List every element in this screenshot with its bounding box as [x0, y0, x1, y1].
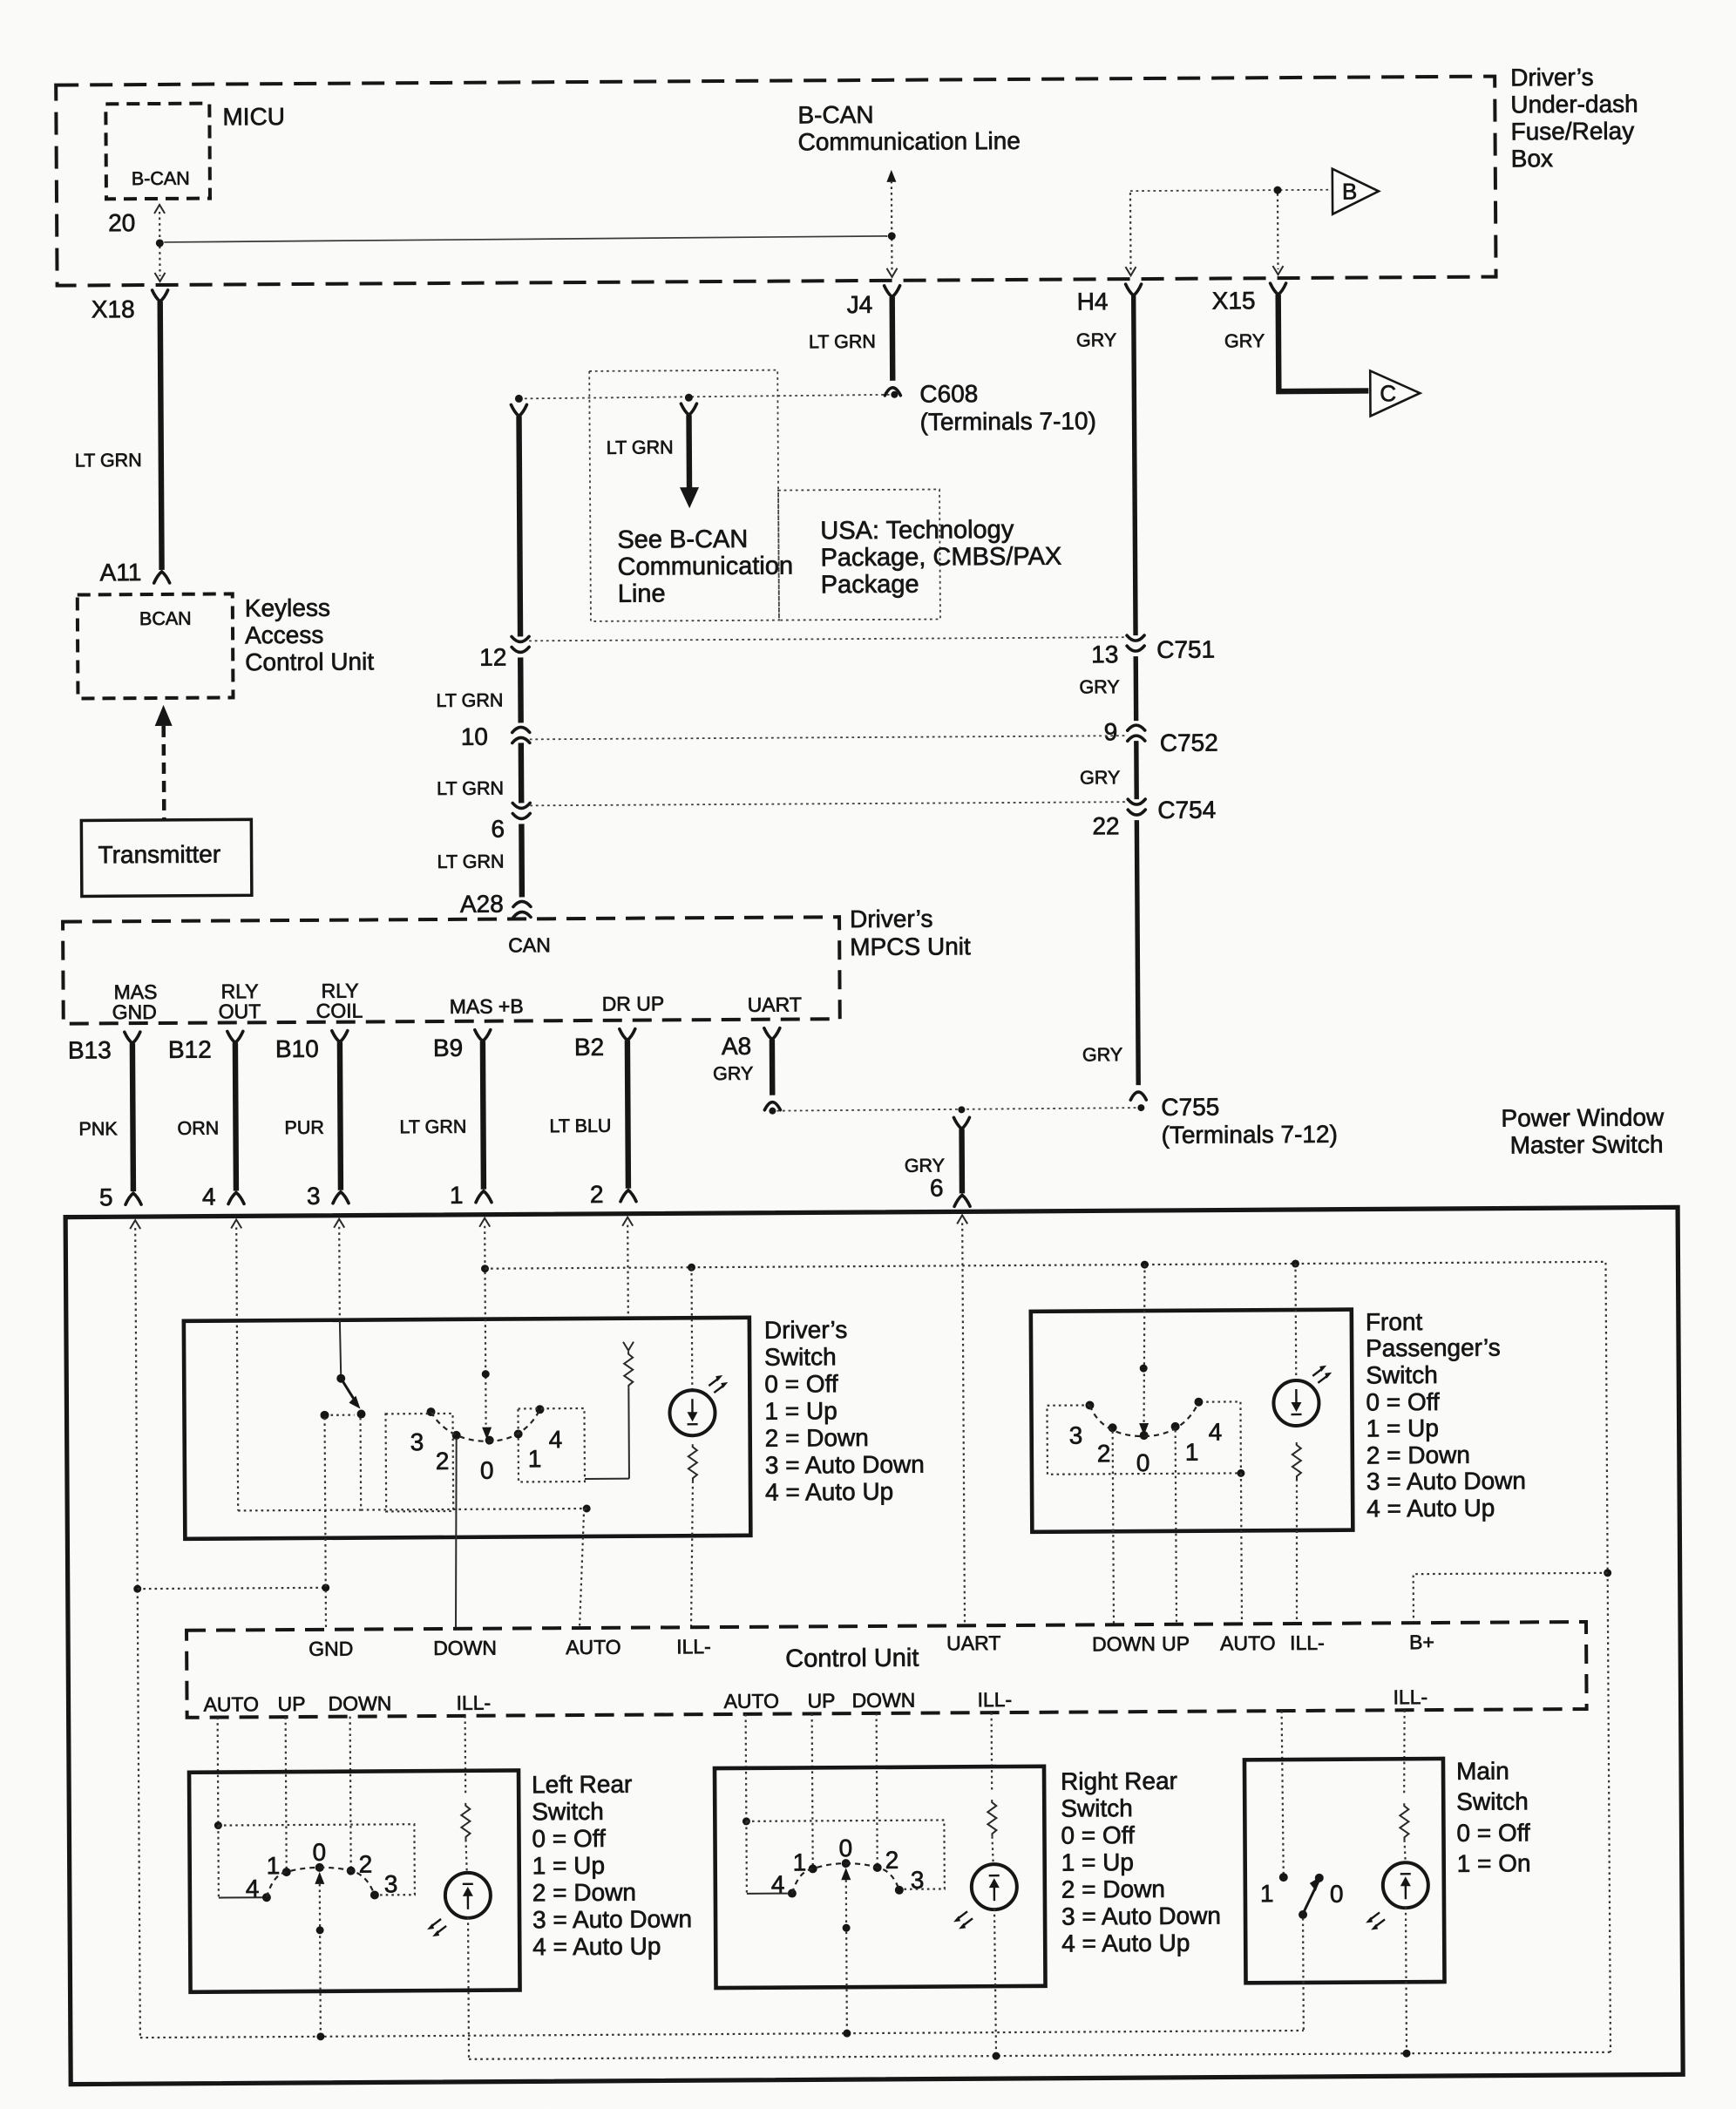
- svg-text:1 = Up: 1 = Up: [1061, 1848, 1134, 1876]
- svg-text:4 = Auto Up: 4 = Auto Up: [765, 1478, 893, 1506]
- FP rotary contact 2: [1097, 1423, 1117, 1467]
- junction pin5/GND link: [133, 1585, 141, 1593]
- svg-text:A28: A28: [460, 891, 504, 918]
- connector A8: [713, 1028, 780, 1084]
- svg-text:0: 0: [1330, 1881, 1344, 1908]
- svg-text:Access: Access: [245, 621, 323, 649]
- svg-text:3: 3: [307, 1183, 321, 1210]
- relay contact (to GND output): [320, 1411, 354, 1420]
- svg-text:C754: C754: [1157, 797, 1216, 824]
- terminal labels control unit bottom row: [203, 1692, 259, 1715]
- connector arrow C: [1370, 370, 1420, 416]
- wire: PUR B10 to pin 3: [284, 1042, 341, 1190]
- svg-text:Driver’s: Driver’s: [1510, 64, 1594, 92]
- svg-text:1: 1: [528, 1445, 542, 1472]
- svg-text:LT GRN: LT GRN: [399, 1116, 466, 1137]
- svg-text:CAN: CAN: [508, 933, 551, 956]
- svg-text:B10: B10: [275, 1035, 319, 1062]
- svg-text:4 = Auto Up: 4 = Auto Up: [1061, 1929, 1190, 1957]
- junction node C608: [891, 379, 1096, 435]
- wire: GRY 9 to 22: [1080, 741, 1136, 799]
- RR rotary contact 2: [873, 1847, 899, 1874]
- wire: contact 2 DOWN output: [455, 1438, 458, 1629]
- wire: main switch contact drop: [1282, 1711, 1284, 1875]
- wire: LT GRN down to connector 12: [435, 416, 521, 711]
- svg-text:Communication: Communication: [617, 553, 793, 581]
- svg-text:Transmitter: Transmitter: [98, 841, 220, 869]
- LR rotary contact 4: [246, 1875, 271, 1902]
- resistor main ILL-: [1400, 1803, 1408, 1861]
- svg-text:1: 1: [267, 1852, 281, 1879]
- svg-text:Switch: Switch: [1061, 1794, 1133, 1822]
- svg-text:ILL-: ILL-: [1290, 1631, 1325, 1654]
- svg-text:C: C: [1380, 380, 1396, 406]
- wire: GND link to control unit: [138, 1588, 326, 1589]
- svg-text:Switch: Switch: [1366, 1361, 1438, 1389]
- svg-text:2 = Down: 2 = Down: [532, 1879, 636, 1907]
- svg-text:B-CAN: B-CAN: [132, 168, 190, 189]
- svg-text:2: 2: [1097, 1440, 1111, 1467]
- svg-text:ORN: ORN: [177, 1118, 219, 1139]
- svg-text:B-CAN: B-CAN: [797, 101, 873, 129]
- connector H4 (female): [1077, 284, 1142, 315]
- rotary contact 0: [480, 1436, 494, 1484]
- wire: LT GRN from X18 to A11: [74, 302, 162, 571]
- wire: GRY H4 down to C751: [1076, 295, 1136, 635]
- Power Window Master Switch enclosure: [65, 1207, 1683, 2084]
- RR rotary contact 4: [771, 1871, 797, 1898]
- svg-text:LT GRN: LT GRN: [75, 450, 142, 471]
- svg-text:LT GRN: LT GRN: [436, 690, 503, 711]
- entry arrows at master switch top: [130, 1215, 967, 1229]
- svg-text:2: 2: [590, 1181, 604, 1208]
- svg-text:C751: C751: [1156, 636, 1215, 663]
- note box: See B-CAN Communication Line: [589, 370, 793, 621]
- wire: wiper common bus: [140, 2031, 1304, 2038]
- svg-text:Box: Box: [1511, 145, 1553, 172]
- junction node X15 branch: [1273, 186, 1281, 194]
- svg-text:4: 4: [1209, 1419, 1223, 1446]
- svg-text:Under-dash: Under-dash: [1510, 91, 1638, 119]
- FP rotary dashed arc: [1089, 1402, 1198, 1437]
- wire: pin6 UART run to control unit: [962, 1223, 965, 1625]
- LR wiper arrow and output: [315, 1872, 325, 2037]
- svg-text:GRY: GRY: [1080, 767, 1120, 788]
- svg-text:OUT: OUT: [219, 1000, 261, 1022]
- svg-text:ILL-: ILL-: [456, 1692, 491, 1714]
- svg-text:GRY: GRY: [1082, 1044, 1122, 1065]
- wire: dotted link 12 to 13 (C751): [529, 637, 1125, 641]
- svg-text:2 = Down: 2 = Down: [765, 1424, 869, 1452]
- svg-text:C752: C752: [1160, 729, 1218, 756]
- LR rotary contact 3: [370, 1870, 398, 1899]
- Front Passenger's Switch box: [1031, 1310, 1353, 1532]
- svg-text:UP: UP: [1162, 1632, 1190, 1655]
- wire: FP AUTO output: [1241, 1473, 1242, 1624]
- rotary dashed arc: [431, 1409, 539, 1441]
- MICU B-CAN internal unit (small dashed box): [105, 104, 210, 200]
- connector A28: [460, 890, 531, 917]
- wire: internal B-CAN bus from pin 20 to J4: [164, 236, 887, 242]
- connector B10: [275, 1031, 348, 1063]
- label: Driver's Switch legend: [764, 1316, 925, 1506]
- RR rotary dashed arc: [792, 1863, 899, 1894]
- svg-text:1 = Up: 1 = Up: [1366, 1414, 1439, 1442]
- label: Right Rear Switch legend: [1061, 1767, 1221, 1957]
- LED FP illumination: [1272, 1264, 1332, 1426]
- junction node at pin 20: [156, 239, 164, 247]
- svg-text:22: 22: [1092, 812, 1119, 839]
- wire: GRY 13 to 9: [1079, 656, 1136, 721]
- wire: right rear UP drop: [812, 1713, 813, 1865]
- wire: contact 4 dotted loop to resistor: [585, 1478, 629, 1480]
- LR rotary dashed arc: [267, 1867, 375, 1897]
- connector J4 (female): [847, 286, 900, 318]
- connector B12: [168, 1031, 243, 1063]
- LR rotary contact 0: [312, 1839, 326, 1872]
- svg-text:2: 2: [359, 1850, 373, 1877]
- svg-text:AUTO: AUTO: [1220, 1631, 1276, 1654]
- wire: pin1 MAS+B run: [484, 1226, 486, 1319]
- wire: pin2 DR UP run: [627, 1225, 629, 1319]
- connector pin 4 (male): [202, 1183, 244, 1210]
- connector A11 (male): [100, 559, 170, 586]
- svg-text:C608: C608: [919, 380, 978, 407]
- junction node C755 right: [1137, 1093, 1338, 1149]
- Transmitter box: [81, 819, 252, 896]
- wire: FP dotted loop rect: [1047, 1401, 1240, 1474]
- svg-text:Switch: Switch: [1456, 1787, 1529, 1815]
- svg-text:0 = Off: 0 = Off: [532, 1825, 606, 1853]
- LR rotary contact 1: [267, 1852, 291, 1879]
- wire: dotted frame around contacts 3-2: [386, 1414, 454, 1511]
- wire: B+ link to control unit: [1414, 1573, 1608, 1623]
- svg-text:0: 0: [1136, 1449, 1150, 1476]
- resistor (DR UP feedback): [623, 1342, 634, 1479]
- svg-text:0: 0: [838, 1834, 852, 1861]
- wire: dotted link 10 to 9 (C752): [530, 736, 1126, 739]
- svg-text:H4: H4: [1077, 288, 1109, 315]
- svg-text:Left Rear: Left Rear: [532, 1771, 632, 1799]
- connector pin 3 (male): [307, 1183, 349, 1210]
- svg-text:Communication Line: Communication Line: [798, 127, 1021, 156]
- connector B9: [433, 1030, 491, 1061]
- wire: left rear DOWN drop: [350, 1717, 351, 1868]
- svg-text:6: 6: [930, 1174, 944, 1201]
- label: B-CAN Communication Line: [797, 100, 1021, 156]
- junction LR wiper on bus: [316, 2032, 324, 2040]
- svg-text:LT GRN: LT GRN: [809, 331, 876, 352]
- svg-text:AUTO: AUTO: [566, 1636, 621, 1658]
- label: Front Passenger's Switch legend: [1366, 1307, 1526, 1522]
- rotary contact 4: [535, 1405, 562, 1453]
- svg-text:1 = Up: 1 = Up: [764, 1397, 837, 1425]
- wire: MAS+B into rotary wiper: [481, 1319, 492, 1440]
- svg-text:Switch: Switch: [764, 1343, 837, 1371]
- Driver's Under-dash Fuse/Relay Box (dashed enclosure): [56, 77, 1495, 286]
- FP rotary contact 4: [1194, 1398, 1222, 1446]
- svg-text:LT GRN: LT GRN: [437, 778, 504, 799]
- Right Rear Switch box: [715, 1767, 1046, 1988]
- wire: left rear AUTO drop: [217, 1718, 220, 1826]
- svg-text:Package, CMBS/PAX: Package, CMBS/PAX: [820, 543, 1061, 573]
- connector chevron A8 bottom: [764, 1102, 780, 1110]
- svg-text:12: 12: [479, 644, 506, 671]
- junction node UART tap: [958, 1106, 965, 1113]
- Keyless Access Control Unit (dashed box with BCAN): [78, 593, 234, 698]
- wire: pin4 run into driver's switch: [236, 1227, 238, 1510]
- svg-text:A11: A11: [100, 559, 142, 586]
- svg-text:DR UP: DR UP: [602, 992, 665, 1014]
- connector stub (female) on middle branch: [681, 403, 696, 415]
- wire: PNK B13 to pin 5: [78, 1043, 133, 1191]
- svg-text:COIL: COIL: [316, 1000, 363, 1022]
- label: Main Switch legend: [1456, 1757, 1531, 1877]
- wire: LT GRN 10 to 6: [437, 743, 521, 804]
- svg-text:A8: A8: [722, 1033, 751, 1060]
- wire: GND output from relay contact: [325, 1418, 326, 1630]
- rotary contact 1: [514, 1429, 542, 1472]
- svg-text:B13: B13: [68, 1036, 112, 1063]
- svg-text:0: 0: [312, 1839, 326, 1866]
- wire: transmitter RF dashed arrow: [155, 705, 173, 820]
- wire: LT GRN B9 to pin 1: [399, 1041, 484, 1190]
- wire: dotted C755 link line: [776, 1108, 1136, 1111]
- svg-text:BCAN: BCAN: [139, 608, 192, 629]
- svg-text:1: 1: [793, 1848, 807, 1875]
- wire: relay contact to pin4 dotted L: [238, 1417, 362, 1511]
- connector X18 (female): [92, 290, 168, 323]
- wire: contact 1 dotted loop: [518, 1408, 585, 1482]
- wire: dotted link 6 to 22 (C754): [530, 802, 1126, 805]
- junction node J4/B-CAN bus: [888, 232, 896, 240]
- svg-text:0 = Off: 0 = Off: [1061, 1821, 1135, 1849]
- svg-text:GRY: GRY: [1079, 676, 1119, 697]
- svg-text:GRY: GRY: [905, 1155, 945, 1176]
- svg-text:3: 3: [911, 1867, 925, 1894]
- wire: MICU pin 20 vertical (internal dotted): [154, 205, 166, 281]
- note box: USA Technology Package: [778, 489, 1062, 620]
- wire: relay coil lead inside: [340, 1320, 341, 1377]
- svg-text:Front: Front: [1366, 1308, 1423, 1335]
- wire: right rear dotted loop: [746, 1820, 945, 1893]
- junction B+ tap right side: [1604, 1569, 1611, 1577]
- wire: ILL- common bus: [469, 2052, 1611, 2059]
- svg-text:ILL-: ILL-: [977, 1688, 1012, 1711]
- wire: LT GRN 12 to 10: [518, 657, 524, 722]
- svg-text:Passenger’s: Passenger’s: [1366, 1334, 1501, 1362]
- wire: LT BLU B2 to pin 2: [549, 1041, 628, 1190]
- svg-text:4 = Auto Up: 4 = Auto Up: [1366, 1495, 1495, 1522]
- svg-text:GRY: GRY: [1076, 329, 1116, 350]
- junction ILL- driver's tap: [688, 1264, 695, 1272]
- svg-text:ILL-: ILL-: [1393, 1685, 1427, 1708]
- connector pin 6 (male): [954, 1195, 970, 1206]
- svg-text:3 = Auto Down: 3 = Auto Down: [765, 1451, 925, 1479]
- svg-text:B12: B12: [168, 1036, 212, 1063]
- svg-text:DOWN: DOWN: [433, 1637, 497, 1659]
- LED driver's illumination: [668, 1267, 728, 1435]
- svg-text:4: 4: [202, 1183, 216, 1210]
- svg-text:Power Window: Power Window: [1501, 1103, 1665, 1131]
- pin 20 label: [108, 209, 135, 236]
- junction GND wire: [322, 1583, 329, 1591]
- svg-text:X15: X15: [1212, 287, 1256, 314]
- svg-text:1: 1: [450, 1182, 464, 1209]
- junction main ILL- on bus: [1402, 2050, 1410, 2058]
- svg-text:Driver’s: Driver’s: [764, 1316, 848, 1344]
- svg-text:3 = Auto Down: 3 = Auto Down: [1061, 1902, 1221, 1930]
- main switch contact 1: [1260, 1873, 1288, 1907]
- svg-text:1 = Up: 1 = Up: [532, 1852, 605, 1880]
- wire: FP feed to wiper: [1138, 1265, 1149, 1435]
- FP rotary contact 1: [1171, 1422, 1199, 1466]
- svg-text:Line: Line: [618, 580, 666, 607]
- svg-text:B: B: [1342, 179, 1358, 205]
- svg-text:ILL-: ILL-: [676, 1635, 711, 1658]
- RR rotary contact 0: [838, 1834, 852, 1868]
- connector X15 (female): [1212, 283, 1286, 315]
- svg-text:0 = Off: 0 = Off: [764, 1370, 838, 1398]
- connector 10: [461, 722, 530, 749]
- terminal label CAN: [508, 933, 551, 956]
- wire: main switch ILL- drop: [1404, 1710, 1406, 1794]
- svg-text:GND: GND: [309, 1638, 353, 1660]
- svg-text:9: 9: [1104, 718, 1118, 745]
- relay switch pivot: [336, 1374, 345, 1383]
- wire: pin3 run to relay pivot: [338, 1227, 341, 1320]
- wire: main switch common output: [1302, 1918, 1305, 2031]
- svg-text:Control Unit: Control Unit: [785, 1644, 919, 1673]
- wire: ORN B12 to pin 4: [177, 1042, 236, 1190]
- svg-text:3 = Auto Down: 3 = Auto Down: [1366, 1467, 1526, 1495]
- svg-text:UP: UP: [277, 1692, 305, 1715]
- wire: internal link H4/X15 to connector B: [1125, 190, 1331, 275]
- connector C751: [1091, 635, 1215, 668]
- wire: dotted B-CAN branch line at C608: [519, 395, 890, 399]
- rotary contact 3: [410, 1407, 435, 1455]
- svg-text:2 = Down: 2 = Down: [1061, 1875, 1165, 1903]
- Control Unit (dashed box): [186, 1622, 1587, 1718]
- svg-text:LT GRN: LT GRN: [437, 851, 505, 872]
- wire: right rear ILL- drop: [991, 1712, 993, 1791]
- RR rotary contact 3: [895, 1867, 925, 1895]
- connector chevron above C755: [1130, 1092, 1146, 1100]
- svg-text:GRY: GRY: [713, 1063, 753, 1084]
- svg-text:GND: GND: [112, 1000, 157, 1023]
- svg-text:Keyless: Keyless: [245, 594, 330, 622]
- junction node LT GRN branch left: [515, 395, 523, 403]
- svg-text:10: 10: [461, 723, 488, 750]
- relay lever: [341, 1379, 360, 1409]
- Left Rear Switch box: [189, 1770, 520, 1991]
- wire: dotted link to AUTO output: [361, 1509, 587, 1630]
- connector C754: [1092, 797, 1216, 840]
- svg-text:USA: Technology: USA: Technology: [820, 516, 1014, 545]
- svg-text:Fuse/Relay: Fuse/Relay: [1510, 118, 1634, 146]
- FP rotary contact 3: [1068, 1400, 1094, 1448]
- svg-text:2: 2: [436, 1448, 450, 1475]
- svg-text:X18: X18: [92, 295, 135, 322]
- terminal labels control unit top row: [309, 1638, 353, 1660]
- label: Keyless Access Control Unit: [245, 593, 375, 675]
- label: Driver's MPCS Unit: [850, 905, 971, 960]
- svg-text:3: 3: [384, 1870, 398, 1897]
- svg-text:B2: B2: [574, 1034, 604, 1061]
- resistor below FP LED: [1292, 1442, 1302, 1624]
- LED left rear illumination: [427, 1873, 492, 2059]
- Main Switch box: [1244, 1759, 1445, 1983]
- svg-text:3: 3: [410, 1428, 424, 1455]
- connector stub (female) on left branch: [511, 404, 526, 416]
- svg-text:6: 6: [491, 816, 505, 843]
- wire: right rear AUTO drop: [745, 1714, 748, 1821]
- svg-text:LT BLU: LT BLU: [549, 1116, 611, 1136]
- connector pin 1 (male): [450, 1182, 492, 1209]
- svg-text:MAS +B: MAS +B: [450, 994, 524, 1018]
- svg-text:1 = On: 1 = On: [1457, 1849, 1531, 1877]
- junction MAS+B bus: [481, 1265, 489, 1272]
- connector pin 2 (male): [590, 1181, 636, 1208]
- svg-text:DOWN: DOWN: [851, 1689, 915, 1712]
- wire: GRY A8 stub: [770, 1040, 776, 1095]
- svg-text:DOWN: DOWN: [328, 1692, 391, 1714]
- wire: pin5 GND run (left vertical): [135, 1228, 140, 2038]
- svg-text:20: 20: [108, 209, 135, 236]
- svg-text:0 = Off: 0 = Off: [1366, 1388, 1440, 1416]
- svg-text:2: 2: [885, 1847, 899, 1874]
- svg-text:MPCS Unit: MPCS Unit: [850, 932, 971, 960]
- label: Left Rear Switch legend: [532, 1770, 692, 1960]
- junction left rear AUTO corner: [214, 1821, 222, 1829]
- Driver's Switch box: [184, 1318, 751, 1539]
- connector 12: [479, 636, 529, 670]
- main switch contact 0 / lever: [1299, 1874, 1344, 1919]
- resistor right rear ILL-: [987, 1800, 996, 1864]
- svg-text:MICU: MICU: [222, 103, 285, 130]
- svg-text:See B-CAN: See B-CAN: [617, 526, 748, 554]
- wire: left rear ILL- drop: [465, 1716, 467, 1794]
- svg-text:2 = Down: 2 = Down: [1366, 1441, 1470, 1469]
- junction FP switch feed tap: [1141, 1261, 1149, 1269]
- svg-text:1: 1: [1260, 1880, 1274, 1907]
- LED right rear illumination: [953, 1864, 1018, 2056]
- junction node A8 / C755 line: [769, 1108, 776, 1115]
- junction node LT GRN branch mid: [685, 394, 693, 402]
- wire: left rear UP drop: [286, 1717, 287, 1868]
- svg-text:Main: Main: [1456, 1758, 1509, 1785]
- junction RR wiper on bus: [843, 2030, 851, 2038]
- wire: left rear dotted loop: [218, 1824, 415, 1897]
- svg-text:Right Rear: Right Rear: [1061, 1767, 1177, 1795]
- wire: J4 internal vertical with up arrow: [886, 170, 898, 277]
- svg-text:AUTO: AUTO: [203, 1692, 259, 1715]
- svg-text:3 = Auto Down: 3 = Auto Down: [532, 1905, 692, 1933]
- connector 6: [491, 803, 530, 842]
- wire: GRY X15 to connector C: [1224, 294, 1369, 391]
- resistor left rear ILL-: [461, 1803, 470, 1873]
- svg-text:4 = Auto Up: 4 = Auto Up: [532, 1932, 661, 1960]
- svg-text:Control Unit: Control Unit: [245, 648, 374, 675]
- wire: GRY 22 down to C755: [1081, 820, 1138, 1085]
- svg-text:0: 0: [480, 1457, 494, 1484]
- LR rotary contact 2: [347, 1850, 373, 1877]
- wire: GRY UART to master switch pin 6: [905, 1129, 963, 1201]
- svg-text:Master Switch: Master Switch: [1510, 1130, 1664, 1158]
- wire: LT GRN J4 to C608: [809, 297, 893, 382]
- svg-text:Package: Package: [821, 571, 919, 600]
- Driver's MPCS Unit (dashed box): [63, 917, 840, 1023]
